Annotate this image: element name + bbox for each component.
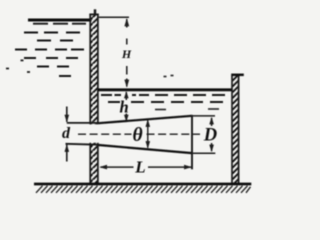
right reservoir water dashes row 1: [101, 94, 225, 96]
H dimension line upper segment with up arrow: [124, 18, 129, 44]
diffuser cone top edge: [99, 116, 193, 123]
two small dots above right water surface: [164, 76, 174, 77]
svg-text:h: h: [120, 98, 129, 117]
left tank water surface: [28, 19, 92, 22]
H dimension top reference line: [99, 16, 129, 18]
diffuser cone bottom edge: [99, 145, 193, 153]
D dimension bottom extension line: [192, 152, 215, 154]
centerline left part: [78, 133, 132, 135]
D dimension upper line with up arrow: [209, 117, 214, 126]
right reservoir water dashes row 3 (sparse): [155, 108, 219, 111]
centerline right part: [147, 133, 201, 135]
left wall (dam) lower part: [90, 143, 98, 184]
pipe mouth top line: [67, 122, 99, 124]
ground hatching: [36, 186, 251, 193]
pipe mouth bottom line: [66, 143, 99, 146]
tick above wall top: [94, 9, 96, 14]
h dimension upper segment with up arrow: [124, 91, 129, 100]
svg-text:D: D: [203, 126, 217, 146]
diffuser exit plane line: [191, 115, 193, 169]
right wall top cap: [231, 74, 244, 77]
H dimension line lower segment with down arrow: [124, 66, 129, 88]
ground line: [34, 183, 251, 186]
D dimension top extension line: [192, 115, 215, 117]
left tank water dashes: [15, 24, 86, 76]
svg-text:d: d: [62, 125, 71, 142]
L dimension line right segment with right arrow: [148, 165, 192, 170]
h dimension lower segment with down arrow: [124, 114, 129, 122]
D dimension lower line with down arrow: [209, 143, 214, 152]
left tank small dots: [6, 60, 30, 72]
right reservoir water surface: [98, 88, 232, 91]
theta angle double arrow: [146, 119, 151, 148]
d dimension lower line with up arrow: [65, 144, 70, 161]
right reservoir wall: [232, 76, 239, 184]
svg-text:H: H: [121, 47, 132, 61]
L dimension line left segment with left arrow: [99, 165, 133, 170]
d dimension upper line with down arrow: [65, 107, 70, 123]
svg-text:L: L: [134, 157, 145, 176]
svg-text:θ: θ: [133, 125, 143, 146]
left wall (dam) upper part: [89, 14, 98, 124]
right reservoir water dashes row 2: [108, 101, 223, 103]
